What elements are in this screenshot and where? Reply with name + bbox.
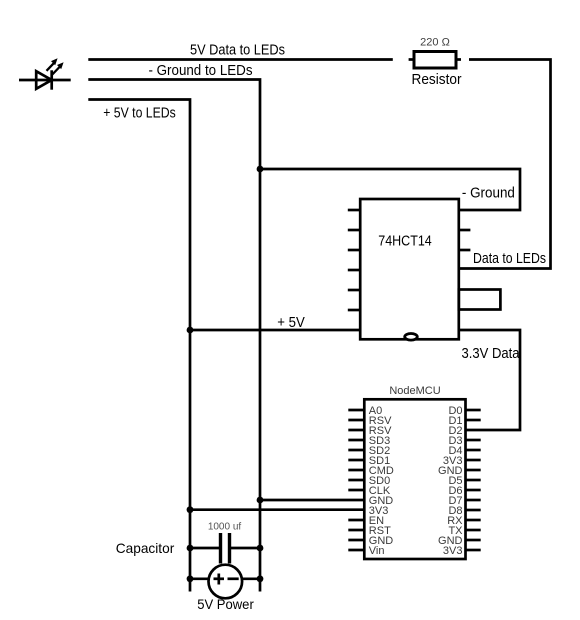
svg-text:- Ground to LEDs: - Ground to LEDs (149, 62, 253, 79)
svg-text:+ 5V to LEDs: + 5V to LEDs (103, 105, 176, 122)
svg-text:Data to LEDs: Data to LEDs (473, 251, 546, 267)
svg-text:5V Power: 5V Power (197, 597, 254, 612)
svg-text:Vin: Vin (369, 545, 385, 557)
svg-text:3.3V Data: 3.3V Data (462, 346, 521, 362)
svg-text:NodeMCU: NodeMCU (389, 385, 440, 397)
svg-text:74HCT14: 74HCT14 (378, 233, 432, 250)
svg-text:220 Ω: 220 Ω (420, 37, 450, 49)
svg-text:3V3: 3V3 (443, 545, 463, 557)
svg-text:+ 5V: + 5V (277, 314, 305, 331)
svg-text:- Ground: - Ground (462, 186, 515, 202)
svg-text:Resistor: Resistor (412, 72, 462, 88)
svg-text:1000 uf: 1000 uf (208, 522, 242, 533)
svg-text:Capacitor: Capacitor (116, 540, 175, 556)
svg-text:5V Data to LEDs: 5V Data to LEDs (190, 42, 285, 59)
